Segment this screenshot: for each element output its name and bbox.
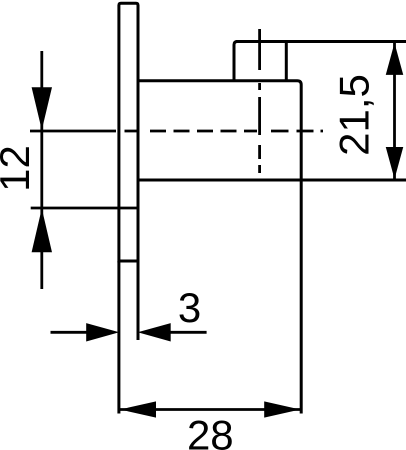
boss left edge with rounded corner xyxy=(234,42,237,81)
svg-text:3: 3 xyxy=(178,284,201,331)
dimension 12 lower extension line xyxy=(31,207,138,210)
svg-text:21,5: 21,5 xyxy=(331,74,378,156)
arrowhead down (12, tip at centerline) xyxy=(32,87,52,130)
arrowhead left (28, tip at left extension) xyxy=(120,401,156,417)
dimension 3 dimension line right part xyxy=(169,331,207,334)
arrowhead left (3, tip at plate right edge) xyxy=(138,323,171,341)
arrowhead down (21,5 bottom) xyxy=(386,147,404,179)
svg-text:12: 12 xyxy=(0,145,38,192)
dimension 12 dimension line xyxy=(40,51,43,289)
boss top line (extends right as extension line for 21,5) xyxy=(236,40,406,43)
dimension 21,5 dimension line xyxy=(393,42,396,181)
svg-text:28: 28 xyxy=(187,412,234,450)
extension line from body right edge down to dimension 28 xyxy=(300,180,303,414)
vertical centerline of boss (dash-dot) xyxy=(258,29,261,173)
arrowhead up (12, tip at lower extension) xyxy=(32,209,52,253)
arrowhead up (21,5 top) xyxy=(386,43,404,75)
extension line from plate left edge down to dimension 28 xyxy=(117,261,120,414)
body outline top and right xyxy=(138,81,301,180)
arrowhead right (28, tip at right extension) xyxy=(264,401,300,417)
boss right edge xyxy=(285,42,288,81)
dimension 28 dimension line xyxy=(119,408,301,411)
extension line from plate right edge for dimension 3 xyxy=(137,261,140,340)
horizontal centerline (solid left part through plate) xyxy=(30,130,138,133)
arrowhead right (3, tip at plate left edge) xyxy=(86,323,119,341)
body bottom line (extends right as extension line for 21,5) xyxy=(138,179,406,182)
dimension 3 dimension line left part xyxy=(51,331,89,334)
flange plate outline xyxy=(119,3,138,261)
horizontal centerline dashes xyxy=(150,130,323,133)
